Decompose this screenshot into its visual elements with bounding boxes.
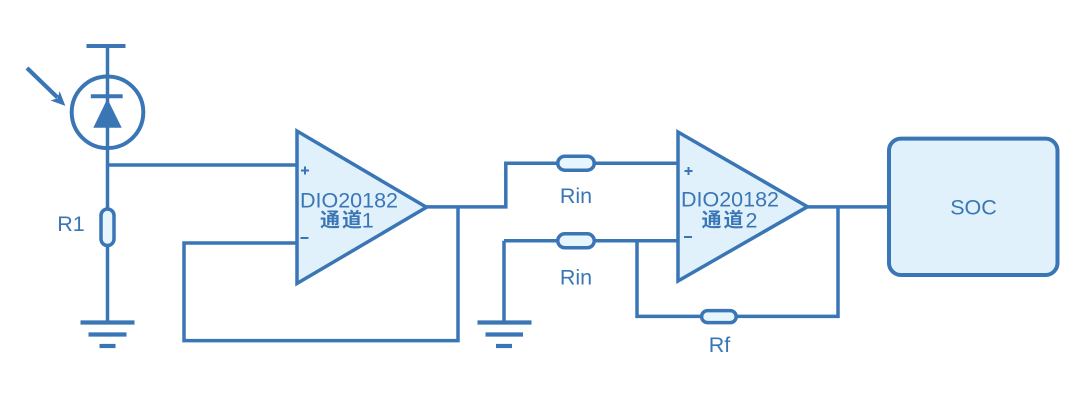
svg-text:Rin: Rin <box>560 266 592 290</box>
svg-text:2: 2 <box>746 209 758 233</box>
svg-text:Rf: Rf <box>709 333 731 357</box>
svg-text:1: 1 <box>362 209 374 233</box>
svg-text:Rin: Rin <box>560 184 592 208</box>
svg-text:R1: R1 <box>57 212 84 236</box>
svg-text:SOC: SOC <box>950 196 997 220</box>
svg-text:DIO20182: DIO20182 <box>681 188 779 212</box>
svg-text:DIO20182: DIO20182 <box>300 189 398 213</box>
